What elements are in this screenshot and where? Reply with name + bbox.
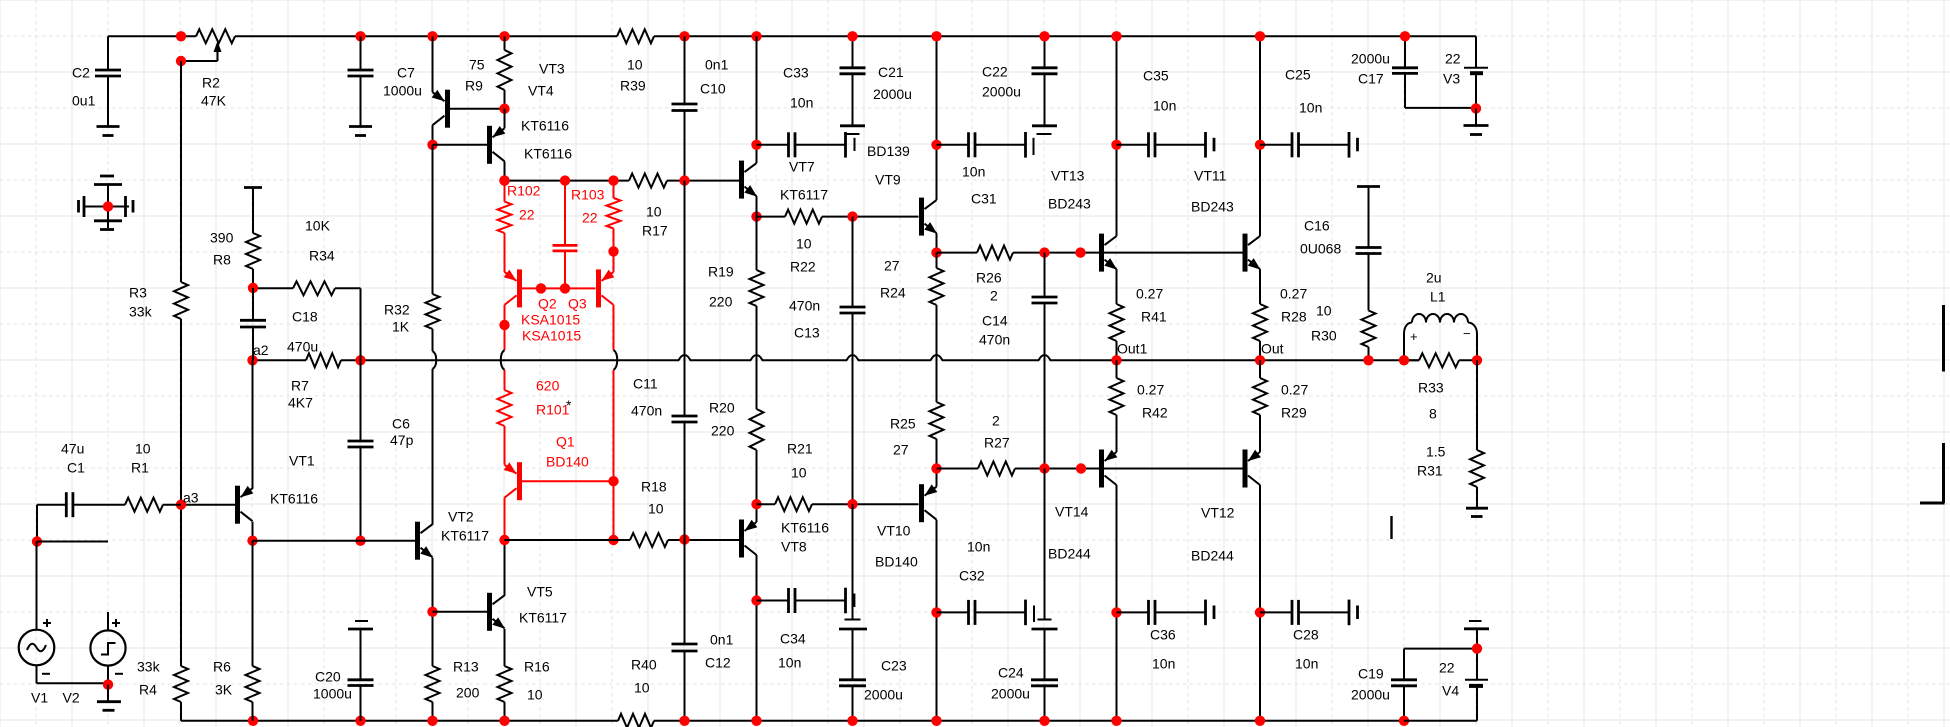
wire C1 down to V1 bbox=[36, 505, 38, 542]
transistor VT4 KT6116 bbox=[433, 109, 506, 181]
transistor VT7 KT6117 bbox=[739, 36, 828, 216]
svg-text:BD243: BD243 bbox=[1048, 196, 1091, 212]
wire R41 to Out1 bbox=[1116, 341, 1118, 360]
svg-text:2: 2 bbox=[992, 413, 1000, 429]
node C13 top junction bbox=[847, 211, 857, 221]
resistor R25 27 bbox=[890, 402, 944, 458]
capacitor C16 0U068 bbox=[1300, 187, 1382, 311]
node bottom bus C20 junction bbox=[355, 716, 365, 726]
svg-text:R101: R101 bbox=[536, 402, 570, 418]
capacitor C22 2000u electrolytic bbox=[982, 36, 1058, 155]
svg-text:0.27: 0.27 bbox=[1281, 382, 1308, 398]
node R103 bottom junction bbox=[608, 246, 618, 256]
svg-text:C19: C19 bbox=[1358, 666, 1384, 682]
capacitor C2 0u1 bbox=[72, 36, 121, 126]
wire Q1 collector node to R18 bbox=[505, 539, 631, 541]
resistor R19 220 bbox=[708, 264, 764, 310]
svg-text:10: 10 bbox=[1316, 303, 1332, 319]
node VT10 base junction bbox=[847, 499, 857, 509]
capacitor C10 0n1 bbox=[672, 36, 729, 180]
transistor VT10 BD140 bbox=[875, 469, 937, 721]
capacitor C1 47u bbox=[37, 441, 125, 518]
node Out1 bbox=[1111, 341, 1147, 366]
wire R20 down to VT8 emitter node bbox=[756, 450, 758, 504]
wire VT3 collector down to R32 bbox=[432, 145, 434, 294]
svg-text:33k: 33k bbox=[137, 659, 161, 675]
capacitor C33 10n bbox=[757, 65, 846, 158]
svg-text:C1: C1 bbox=[67, 460, 85, 476]
node bottom bus VT12 collector junction bbox=[1255, 716, 1265, 726]
resistor R31 1.5 bbox=[1417, 360, 1484, 507]
node VT1 collector junction bbox=[247, 536, 257, 546]
svg-text:C10: C10 bbox=[700, 81, 726, 97]
svg-text:C13: C13 bbox=[794, 325, 820, 341]
svg-text:BD244: BD244 bbox=[1048, 546, 1091, 562]
svg-text:R18: R18 bbox=[641, 479, 667, 495]
svg-text:R20: R20 bbox=[709, 400, 735, 416]
svg-text:0n1: 0n1 bbox=[705, 57, 729, 73]
svg-text:VT13: VT13 bbox=[1051, 168, 1085, 184]
resistor R13 200 bbox=[426, 659, 480, 721]
svg-text:C25: C25 bbox=[1285, 67, 1311, 83]
svg-text:VT4: VT4 bbox=[528, 83, 554, 99]
4-way common ground symbol bbox=[79, 176, 134, 230]
resistor R34 10K bbox=[253, 218, 361, 361]
svg-text:220: 220 bbox=[709, 294, 733, 310]
svg-text:BD243: BD243 bbox=[1191, 199, 1234, 215]
transistor VT1 KT6116 bbox=[181, 453, 318, 541]
node top bus C7 junction bbox=[355, 31, 365, 41]
svg-text:R19: R19 bbox=[708, 264, 734, 280]
capacitor C6 47p bbox=[348, 360, 414, 540]
resistor R101 620 (red) bbox=[498, 378, 573, 427]
wire R22 to VT9 base bbox=[822, 216, 919, 218]
node top bus VT13 junction bbox=[1111, 31, 1121, 41]
transistor VT2 KT6117 bbox=[253, 509, 490, 560]
svg-text:R103: R103 bbox=[571, 187, 605, 203]
svg-text:R17: R17 bbox=[642, 223, 668, 239]
wire VT7 emitter down to R19 bbox=[756, 201, 758, 270]
node top bus VT7 junction bbox=[751, 31, 761, 41]
capacitor C19 2000u bbox=[1351, 649, 1477, 721]
svg-text:BD244: BD244 bbox=[1191, 548, 1234, 564]
node a3 bbox=[176, 490, 199, 510]
node C6 VT2 base junction bbox=[355, 536, 365, 546]
node VT9 emitter junction bbox=[931, 247, 941, 257]
red bypass capacitor between R102 and R103 bbox=[553, 181, 578, 289]
capacitor C7 1000u bbox=[348, 36, 422, 126]
svg-text:10n: 10n bbox=[1153, 98, 1176, 114]
resistor R20 220 bbox=[709, 400, 764, 451]
resistor R28 0.27 bbox=[1253, 286, 1307, 342]
svg-text:R21: R21 bbox=[787, 441, 813, 457]
svg-text:0.27: 0.27 bbox=[1137, 382, 1164, 398]
wire top supply bus bbox=[108, 35, 1476, 37]
svg-text:0.27: 0.27 bbox=[1280, 286, 1307, 302]
capacitor C13 470n bbox=[789, 217, 866, 505]
svg-text:R29: R29 bbox=[1281, 405, 1307, 421]
svg-text:0u1: 0u1 bbox=[72, 93, 96, 109]
transistor VT9 BD139 bbox=[867, 36, 937, 252]
node Q2 collector junction bbox=[499, 320, 509, 330]
node L1 left junction bbox=[1399, 355, 1409, 365]
svg-text:VT9: VT9 bbox=[875, 172, 901, 188]
node VT13 base junction bbox=[1075, 247, 1085, 257]
svg-text:10n: 10n bbox=[790, 95, 813, 111]
node VT5 base junction bbox=[427, 607, 437, 617]
resistor R29 0.27 bbox=[1253, 360, 1308, 420]
node VT8 emitter junction bbox=[751, 499, 761, 509]
node red column R18 junction bbox=[608, 535, 618, 545]
node top bus R9 junction bbox=[499, 31, 509, 41]
capacitor C31 10n bbox=[937, 132, 1026, 207]
resistor R41 0.27 bbox=[1110, 286, 1167, 342]
svg-text:47u: 47u bbox=[61, 441, 84, 457]
svg-text:R27: R27 bbox=[984, 435, 1010, 451]
node R8 C18 R34 junction bbox=[248, 283, 258, 293]
svg-text:KT6116: KT6116 bbox=[781, 520, 829, 536]
svg-text:22: 22 bbox=[519, 207, 535, 223]
inductor L1 2u bbox=[1404, 270, 1477, 361]
svg-text:390: 390 bbox=[210, 230, 234, 246]
node R102 top junction bbox=[499, 175, 509, 185]
svg-text:2: 2 bbox=[990, 288, 998, 304]
node bottom bus R16 junction bbox=[499, 716, 509, 726]
node C32 junction bbox=[931, 607, 941, 617]
svg-text:10: 10 bbox=[634, 680, 650, 696]
wire a3 down to R4 bbox=[180, 504, 182, 666]
node a2 bbox=[247, 342, 268, 365]
node VT14 base junction bbox=[1076, 463, 1086, 473]
svg-text:33k: 33k bbox=[129, 304, 153, 320]
wire R28 to Out bbox=[1259, 341, 1261, 360]
node VT3 collector junction bbox=[427, 140, 437, 150]
resistor R27 2 bbox=[978, 413, 1015, 476]
resistor R40 10 on bottom bus bbox=[618, 657, 657, 727]
capacitor C20 1000u electrolytic bbox=[313, 621, 374, 721]
capacitor C12 0n1 bbox=[672, 632, 734, 721]
svg-text:22: 22 bbox=[582, 210, 598, 226]
node C11 bottom VT8 base junction bbox=[679, 534, 689, 544]
node VT7 emitter junction bbox=[751, 211, 761, 221]
node top bus R2 junction bbox=[176, 31, 186, 41]
svg-text:KSA1015: KSA1015 bbox=[521, 312, 580, 328]
node top bus VT9 junction bbox=[931, 31, 941, 41]
svg-text:1.5: 1.5 bbox=[1426, 444, 1446, 460]
svg-text:C20: C20 bbox=[315, 669, 341, 685]
svg-text:10: 10 bbox=[791, 465, 807, 481]
resistor R26 2 bbox=[976, 246, 1013, 304]
resistor R42 0.27 bbox=[1110, 360, 1168, 420]
svg-text:C7: C7 bbox=[397, 65, 415, 81]
ground below C7 bbox=[349, 127, 372, 136]
wire R3 to node a3 bbox=[180, 319, 182, 504]
svg-text:2000u: 2000u bbox=[1351, 687, 1390, 703]
wire R17 to VT7 base bbox=[667, 180, 739, 182]
svg-text:C28: C28 bbox=[1293, 627, 1319, 643]
svg-text:R30: R30 bbox=[1311, 328, 1337, 344]
svg-text:10n: 10n bbox=[1299, 100, 1322, 116]
svg-text:C16: C16 bbox=[1304, 218, 1330, 234]
ground below V3 bbox=[1464, 108, 1489, 134]
svg-text:R4: R4 bbox=[139, 682, 157, 698]
svg-text:L1: L1 bbox=[1430, 289, 1446, 305]
svg-text:10: 10 bbox=[135, 441, 151, 457]
svg-text:*: * bbox=[566, 397, 572, 413]
wire crossover down to Q1 base (red) bbox=[613, 370, 615, 481]
svg-text:C12: C12 bbox=[705, 655, 731, 671]
transistor VT11 BD243 bbox=[1191, 36, 1261, 304]
svg-text:VT5: VT5 bbox=[527, 584, 553, 600]
voltage source V2 step bbox=[63, 612, 126, 706]
wire VT2 emitter down to VT5 base bbox=[432, 558, 434, 666]
svg-text:22: 22 bbox=[1439, 660, 1455, 676]
svg-text:R22: R22 bbox=[790, 259, 816, 275]
svg-text:R102: R102 bbox=[507, 183, 541, 199]
svg-text:470n: 470n bbox=[789, 298, 820, 314]
svg-text:10n: 10n bbox=[967, 539, 990, 555]
svg-text:2u: 2u bbox=[1426, 270, 1442, 286]
node V1 top junction bbox=[32, 536, 42, 546]
stray mark right edge bracket bbox=[1920, 443, 1945, 503]
svg-text:1K: 1K bbox=[392, 319, 410, 335]
node R7 R34 C6 junction bbox=[355, 355, 365, 365]
transistor VT12 BD244 bbox=[1191, 415, 1261, 721]
svg-text:470u: 470u bbox=[287, 339, 318, 355]
svg-text:22: 22 bbox=[1445, 51, 1461, 67]
wire hop over rail at x=613 bbox=[614, 350, 618, 370]
node Q1 base junction bbox=[608, 476, 618, 486]
ground below V2 bbox=[97, 685, 121, 711]
potentiometer R2 47K bbox=[181, 29, 235, 108]
resistor R102 22 (red) bbox=[498, 181, 541, 233]
svg-text:BD140: BD140 bbox=[875, 554, 918, 570]
capacitor C34 10n bbox=[757, 588, 855, 671]
wire output rail from node a2 to R33 bbox=[253, 355, 1420, 360]
svg-text:10: 10 bbox=[527, 687, 543, 703]
transistor VT13 BD243 bbox=[1048, 36, 1117, 304]
svg-text:C21: C21 bbox=[878, 64, 904, 80]
node top bus C17 junction bbox=[1400, 31, 1410, 41]
svg-text:a3: a3 bbox=[183, 490, 199, 506]
node bottom bus VT14 collector junction bbox=[1111, 716, 1121, 726]
stray mark right edge upper bbox=[1942, 305, 1945, 372]
svg-text:R9: R9 bbox=[465, 78, 483, 94]
node V4 C19 junction bbox=[1472, 643, 1482, 653]
resistor R16 10 bbox=[498, 659, 550, 721]
resistor R7 4K7 bbox=[288, 353, 341, 410]
wire R18 to VT8 base bbox=[668, 539, 740, 541]
svg-text:R39: R39 bbox=[620, 78, 646, 94]
node C10 bottom VT7 base junction bbox=[679, 175, 689, 185]
svg-text:V1: V1 bbox=[31, 690, 48, 706]
node VT10 emitter junction bbox=[931, 463, 941, 473]
wire hop over rail at x=504 bbox=[501, 350, 505, 370]
svg-text:C17: C17 bbox=[1358, 71, 1384, 87]
node VT4 collector junction bbox=[499, 175, 509, 185]
svg-text:10: 10 bbox=[796, 236, 812, 252]
node C34 junction bbox=[751, 595, 761, 605]
svg-text:BD139: BD139 bbox=[867, 143, 910, 159]
node top bus C10 junction bbox=[679, 31, 689, 41]
svg-text:620: 620 bbox=[536, 378, 560, 394]
node C28 junction bbox=[1255, 607, 1265, 617]
node V1 V2 ground junction bbox=[103, 679, 113, 689]
transistor VT14 BD244 bbox=[1048, 415, 1117, 721]
wire R26 to VT13 and VT11 bases bbox=[1013, 252, 1243, 254]
svg-text:R16: R16 bbox=[524, 659, 550, 675]
wire R24 to R25 through rail bbox=[936, 305, 938, 402]
svg-text:10n: 10n bbox=[778, 655, 801, 671]
voltage source V4 22V bbox=[1404, 621, 1489, 721]
svg-text:R3: R3 bbox=[129, 285, 147, 301]
node top bus C22 junction bbox=[1039, 31, 1049, 41]
svg-text:Q3: Q3 bbox=[568, 296, 587, 312]
resistor R3 33k bbox=[129, 282, 188, 320]
svg-text:C36: C36 bbox=[1150, 627, 1176, 643]
node R30 rail junction bbox=[1363, 355, 1373, 365]
wire R27 to VT14 and VT12 bases bbox=[1015, 468, 1243, 470]
svg-text:C31: C31 bbox=[971, 191, 997, 207]
capacitor C25 10n bbox=[1260, 67, 1358, 158]
node top bus VT11 junction bbox=[1255, 31, 1265, 41]
svg-text:KSA1015: KSA1015 bbox=[522, 328, 581, 344]
wire Q1 base node down to R18 line (red) bbox=[613, 481, 615, 540]
voltage source V1 sine bbox=[19, 542, 108, 706]
svg-text:KT6116: KT6116 bbox=[270, 491, 318, 507]
voltage source V3 22V bbox=[1443, 36, 1488, 108]
node top bus VT3 junction bbox=[427, 31, 437, 41]
node base line junction 1 bbox=[536, 283, 546, 293]
node VT13 collector C35 junction bbox=[1111, 140, 1121, 150]
node R103 top junction bbox=[608, 175, 618, 185]
svg-text:2000u: 2000u bbox=[873, 86, 912, 102]
svg-text:C33: C33 bbox=[783, 65, 809, 81]
svg-text:C11: C11 bbox=[633, 376, 658, 392]
wire crossover down to R101 (red) bbox=[504, 370, 506, 390]
svg-text:R6: R6 bbox=[213, 659, 231, 675]
svg-text:V4: V4 bbox=[1442, 683, 1459, 699]
svg-text:C23: C23 bbox=[881, 658, 907, 674]
svg-text:220: 220 bbox=[711, 423, 735, 439]
svg-text:C35: C35 bbox=[1143, 68, 1169, 84]
svg-text:10: 10 bbox=[648, 501, 664, 517]
wire a2 down to VT1 emitter bbox=[252, 360, 254, 488]
wire VT4 collector to R17 bbox=[505, 180, 630, 182]
svg-text:Out: Out bbox=[1261, 341, 1284, 357]
ground below C2 bbox=[97, 127, 120, 136]
resistor R17 10 bbox=[629, 174, 668, 239]
wire Q3 collector down to rail crossover (red) bbox=[613, 305, 615, 350]
wire R30 to output rail bbox=[1368, 347, 1370, 360]
node Out bbox=[1255, 341, 1284, 366]
resistor R6 3K bbox=[213, 541, 260, 721]
node Q1 collector junction bbox=[499, 535, 509, 545]
resistor R33 8 bbox=[1404, 353, 1477, 421]
svg-text:VT10: VT10 bbox=[877, 523, 911, 539]
svg-text:0n1: 0n1 bbox=[710, 632, 734, 648]
capacitor C18 470u bbox=[240, 288, 318, 360]
resistor R18 10 bbox=[630, 479, 668, 548]
transistor Q1 BD140 (red) bbox=[504, 426, 614, 540]
capacitor C32 10n bbox=[937, 539, 1035, 626]
svg-text:8: 8 bbox=[1429, 406, 1437, 422]
svg-text:2000u: 2000u bbox=[982, 84, 1021, 100]
wire Q2 collector down to rail crossover (red) bbox=[504, 325, 506, 350]
node C14 bottom junction bbox=[1039, 463, 1049, 473]
node bottom bus R13 junction bbox=[427, 716, 437, 726]
svg-text:KT6116: KT6116 bbox=[524, 146, 572, 162]
svg-text:VT14: VT14 bbox=[1055, 504, 1089, 520]
wire VT10 emitter node to R27 bbox=[937, 468, 979, 470]
transistor Q3 KSA1015 (red) bbox=[596, 251, 614, 307]
svg-text:C22: C22 bbox=[982, 64, 1008, 80]
svg-text:V3: V3 bbox=[1443, 71, 1460, 87]
wire bottom supply bus bbox=[181, 720, 1404, 722]
transistor VT5 KT6117 bbox=[433, 540, 568, 666]
svg-text:C2: C2 bbox=[72, 65, 90, 81]
svg-text:R2: R2 bbox=[202, 75, 220, 91]
svg-text:2000u: 2000u bbox=[991, 686, 1030, 702]
wire R25 down to VT10 emitter node bbox=[936, 439, 938, 474]
wire from R2 wiper down to R3 bbox=[180, 61, 182, 282]
wire VT9 emitter to R26 bbox=[937, 252, 978, 254]
capacitor C35 10n bbox=[1117, 68, 1215, 158]
svg-text:R13: R13 bbox=[453, 659, 479, 675]
resistor R32 1K bbox=[384, 294, 440, 335]
svg-text:C34: C34 bbox=[780, 631, 806, 647]
svg-text:10: 10 bbox=[627, 57, 643, 73]
resistor R24 27 bbox=[880, 258, 944, 306]
svg-text:VT3: VT3 bbox=[539, 61, 565, 77]
wire hop over output rail at x=433 bbox=[433, 351, 437, 369]
svg-text:KT6117: KT6117 bbox=[519, 610, 567, 626]
svg-text:470n: 470n bbox=[631, 403, 662, 419]
svg-text:VT7: VT7 bbox=[789, 159, 815, 175]
svg-text:R34: R34 bbox=[309, 248, 335, 264]
transistor VT3 KT6116 bbox=[432, 36, 573, 161]
node C14 top junction bbox=[1039, 247, 1049, 257]
svg-text:VT1: VT1 bbox=[289, 453, 315, 469]
node bottom bus VT10 collector junction bbox=[931, 716, 941, 726]
svg-text:+: + bbox=[1410, 329, 1418, 344]
svg-text:R40: R40 bbox=[631, 657, 657, 673]
stray mark vertical tick bbox=[1390, 516, 1392, 539]
wire Q2 Q3 base line (red) bbox=[522, 287, 596, 289]
transistor Q2 KSA1015 (red) bbox=[504, 233, 587, 344]
resistor R9 75 bbox=[465, 36, 512, 108]
svg-text:47K: 47K bbox=[201, 93, 227, 109]
svg-text:R42: R42 bbox=[1142, 405, 1168, 421]
svg-text:VT2: VT2 bbox=[448, 509, 474, 525]
node C36 junction bbox=[1111, 607, 1121, 617]
resistor R4 33k bbox=[137, 659, 188, 703]
resistor R21 10 bbox=[775, 441, 813, 512]
transistor VT8 KT6116 bbox=[739, 504, 829, 721]
node L1 right junction bbox=[1472, 355, 1482, 365]
svg-text:R24: R24 bbox=[880, 285, 906, 301]
resistor R39 10 bbox=[617, 29, 654, 93]
node V3 negative terminal junction bbox=[1471, 103, 1481, 113]
svg-text:R8: R8 bbox=[213, 252, 231, 268]
svg-text:a2: a2 bbox=[253, 342, 269, 358]
node bottom bus C23 junction bbox=[847, 716, 857, 726]
svg-text:75: 75 bbox=[469, 57, 485, 73]
svg-text:R31: R31 bbox=[1417, 463, 1443, 479]
wire crossover down to VT2 collector bbox=[432, 369, 434, 525]
svg-text:R33: R33 bbox=[1418, 380, 1444, 396]
svg-text:2000u: 2000u bbox=[1351, 51, 1390, 67]
